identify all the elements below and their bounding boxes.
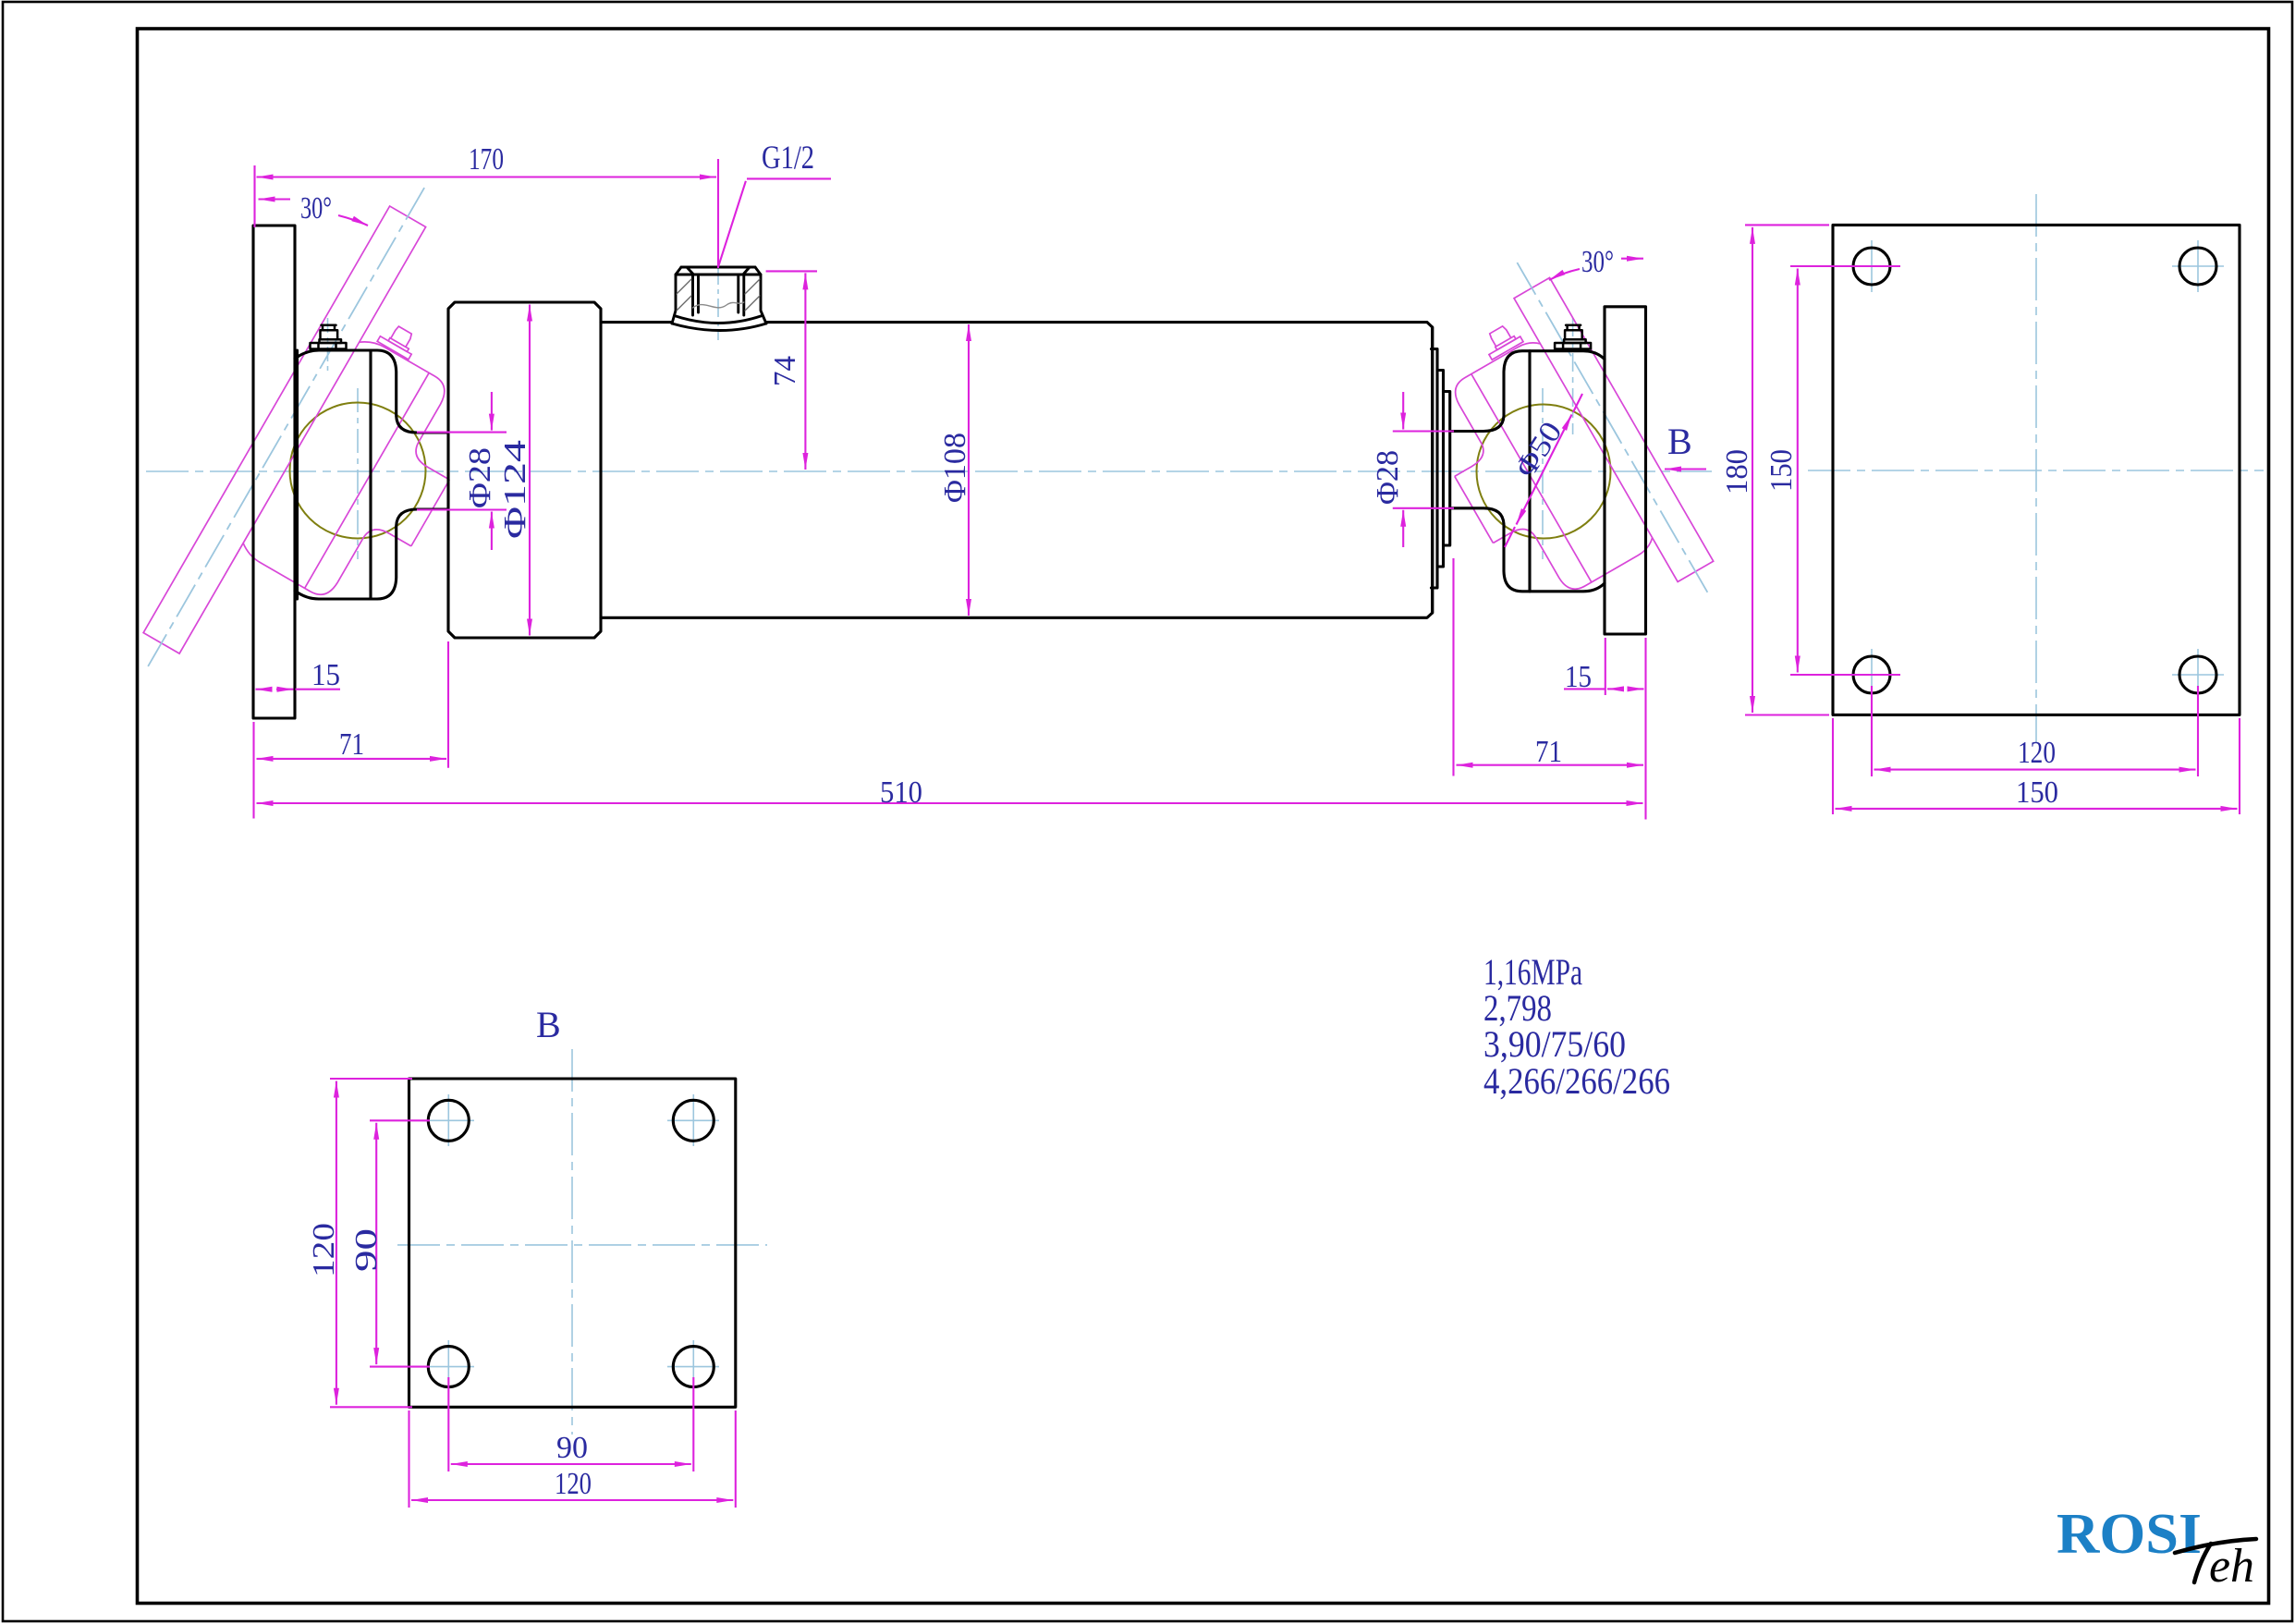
svg-text:74: 74 xyxy=(768,356,802,386)
svg-text:eh: eh xyxy=(2209,1540,2254,1593)
svg-text:30°: 30° xyxy=(300,191,332,226)
svg-text:71: 71 xyxy=(1535,735,1562,769)
svg-text:120: 120 xyxy=(555,1467,592,1501)
svg-text:120: 120 xyxy=(307,1223,341,1277)
svg-text:15: 15 xyxy=(1565,660,1592,694)
svg-text:120: 120 xyxy=(2018,736,2056,770)
svg-text:4,266/266/266: 4,266/266/266 xyxy=(1483,1060,1670,1102)
svg-text:15: 15 xyxy=(311,658,340,692)
svg-text:180: 180 xyxy=(1720,449,1754,495)
svg-text:Φ28: Φ28 xyxy=(1371,450,1405,505)
svg-text:71: 71 xyxy=(339,727,364,762)
svg-text:Φ124: Φ124 xyxy=(498,440,532,539)
svg-text:3,90/75/60: 3,90/75/60 xyxy=(1483,1023,1626,1065)
svg-text:Φ108: Φ108 xyxy=(938,433,972,503)
svg-text:30°: 30° xyxy=(1581,245,1614,279)
svg-text:B: B xyxy=(1667,421,1692,462)
svg-text:150: 150 xyxy=(2016,775,2058,810)
svg-text:G1/2: G1/2 xyxy=(762,139,814,176)
svg-text:170: 170 xyxy=(469,142,504,177)
svg-text:B: B xyxy=(536,1004,561,1045)
svg-text:90: 90 xyxy=(556,1431,588,1465)
svg-text:90: 90 xyxy=(349,1228,384,1272)
svg-text:Φ28: Φ28 xyxy=(463,447,497,508)
svg-text:ROSI: ROSI xyxy=(2057,1503,2202,1566)
svg-text:510: 510 xyxy=(880,775,922,810)
svg-text:150: 150 xyxy=(1764,449,1799,492)
